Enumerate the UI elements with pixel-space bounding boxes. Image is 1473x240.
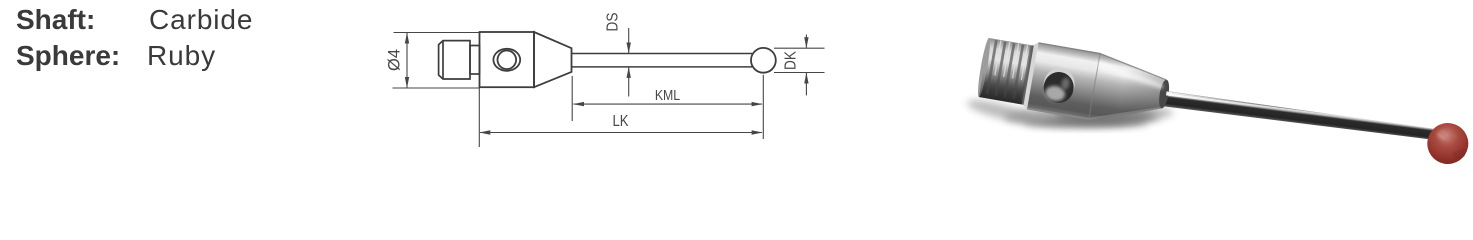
svg-text:DS: DS [605,12,622,31]
svg-text:DK: DK [783,51,800,70]
svg-text:KML: KML [655,87,681,103]
svg-text:LK: LK [612,113,628,130]
svg-text:Ø4: Ø4 [384,49,403,71]
